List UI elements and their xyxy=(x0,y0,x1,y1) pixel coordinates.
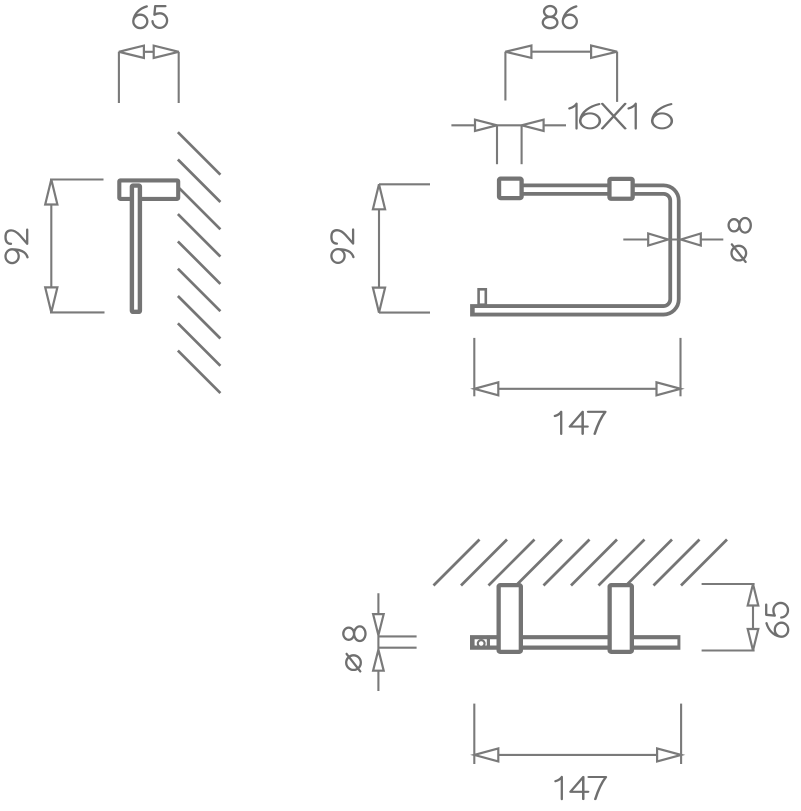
hanger bar (side view) xyxy=(132,186,140,312)
dimension text 86 (mount spacing) xyxy=(543,6,577,28)
extension line 65 top-view upper xyxy=(702,583,755,585)
extension line 16 left xyxy=(496,125,498,164)
dimension line dia8 top with inward arrows xyxy=(373,593,384,691)
dimension text 92 (front view height) xyxy=(331,230,353,263)
right mount (top view) xyxy=(610,585,632,652)
left mount (top view) xyxy=(499,585,521,652)
left mount square (front view) xyxy=(499,179,522,198)
dimension text 147 (top view) xyxy=(555,777,606,799)
dimension line 147 front with arrows xyxy=(474,382,680,395)
extension line 147 top-view left xyxy=(473,704,475,764)
wall hatching (side view) xyxy=(178,132,221,393)
extension line 92 front bottom xyxy=(379,312,430,314)
tube edge leader bottom xyxy=(378,647,416,649)
right mount square (front view) xyxy=(609,179,632,199)
extension line 92 top xyxy=(50,178,104,180)
dimension text 16X16 (mount size) xyxy=(569,104,671,129)
dimension text dia8 (front view) xyxy=(729,218,751,262)
towel ring tube (top view) xyxy=(470,635,680,650)
wall plate (side view) xyxy=(119,180,178,199)
tube edge leader top xyxy=(378,635,416,637)
dimension text dia8 (top view) xyxy=(343,626,365,671)
extension line 65 top-view lower xyxy=(702,649,755,651)
towel ring tube (front view) xyxy=(470,190,674,311)
extension line 147 front left xyxy=(473,338,475,396)
extension line 147 top-view right xyxy=(680,704,682,764)
dimension line 65 top view with arrows xyxy=(748,584,759,651)
wall hatching (top view) xyxy=(434,540,728,586)
hook end circle (top view) xyxy=(478,640,485,647)
dimension line 147 top view with arrows xyxy=(474,748,681,761)
hook end divider (top view) xyxy=(487,635,490,649)
dimension text 65 (side view width) xyxy=(133,6,167,28)
dimension line 92 front with arrows xyxy=(373,184,385,312)
dimension text 92 (side view height) xyxy=(6,230,28,263)
extension line 92 front top xyxy=(379,183,430,185)
dimension line 65 with arrows xyxy=(119,46,179,58)
dimension text 147 (front view) xyxy=(555,412,606,434)
dimension line 86 with arrows xyxy=(505,46,617,58)
hook stub (front view) xyxy=(479,289,486,304)
dimension line dia8 front with inward arrows xyxy=(623,234,723,246)
extension line 147 front right xyxy=(679,338,681,396)
dimension line 16 with inward arrows xyxy=(451,120,566,131)
extension line 86 left xyxy=(504,52,506,101)
dimension line 92 with arrows xyxy=(45,180,57,313)
extension line 86 right xyxy=(616,52,618,102)
extension line 65 left xyxy=(118,52,120,103)
extension line 65 right xyxy=(178,52,180,103)
dimension text 65 (top view) xyxy=(766,603,788,637)
extension line 16 right xyxy=(521,125,523,164)
extension line 92 bottom xyxy=(50,311,105,313)
